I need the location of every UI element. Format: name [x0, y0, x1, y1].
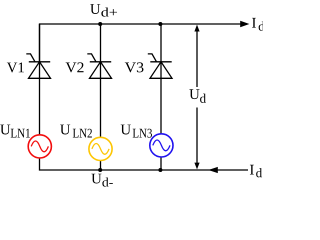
- wire branch 1 vertical (V1 / U_LN1): [39, 24, 41, 135]
- label U_LN3: [121, 125, 131, 135]
- wire U_d measurement line lower: [196, 108, 198, 164]
- wire branch 3 vertical (V3 / U_LN3): [160, 24, 162, 134]
- arrowhead I_d top (points right): [240, 21, 249, 27]
- arrowhead U_d up: [194, 25, 199, 32]
- label U_LN1: [0, 125, 10, 135]
- junction dot bottom branch3: [158, 168, 162, 172]
- node label U_d-: [91, 174, 101, 184]
- node label U_d+: [90, 4, 100, 14]
- AC source U_LN2 (yellow): [89, 137, 112, 160]
- junction dot top branch3: [158, 22, 162, 26]
- wire bottom bus U_d-: [40, 158, 249, 170]
- label U_d: [189, 89, 199, 99]
- label V2: [66, 62, 84, 72]
- label I_d top: [252, 18, 256, 28]
- label I_d bottom: [250, 165, 254, 175]
- wire branch 2 vertical (V2 / U_LN2): [100, 24, 102, 137]
- wire top bus U_d+ from V1 corner to right arrow: [40, 24, 242, 62]
- thyristor V2: [87, 54, 111, 78]
- junction dot top branch2: [98, 22, 102, 26]
- arrowhead U_d down: [194, 163, 199, 170]
- arrowhead I_d bottom (points left): [208, 167, 218, 173]
- label U_LN2: [60, 125, 70, 135]
- label V1: [7, 63, 24, 73]
- wire U_d measurement line upper: [196, 31, 198, 87]
- AC source U_LN1 (red): [28, 135, 51, 158]
- AC source U_LN3 (blue): [150, 134, 173, 157]
- thyristor V3: [148, 54, 172, 78]
- junction dot bottom branch2: [98, 168, 102, 172]
- label V3: [125, 62, 144, 72]
- thyristor V1: [26, 54, 50, 78]
